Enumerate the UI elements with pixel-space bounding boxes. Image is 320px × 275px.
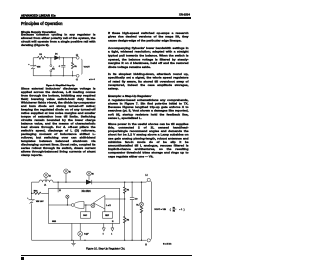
- left column subhead: [21, 30, 71, 34]
- svg-text:R1: R1: [127, 190, 129, 192]
- terminal plus: [76, 54, 79, 59]
- right column para 4: [108, 98, 189, 120]
- heading: [21, 21, 71, 26]
- wire bottom bus: [32, 239, 147, 241]
- page number block: [21, 257, 24, 260]
- wire top: [33, 57, 76, 59]
- capacitor CT pin: [78, 223, 89, 240]
- wire left vertical: [31, 182, 33, 240]
- svg-text:REF: REF: [105, 215, 110, 217]
- svg-text:11: 11: [112, 221, 114, 223]
- svg-text:CO: CO: [135, 199, 138, 201]
- svg-text:fS = 25 kHz: fS = 25 kHz: [163, 243, 172, 245]
- wire comp input: [105, 198, 125, 200]
- bottom caption 2: [86, 247, 146, 250]
- svg-text:0.1µF: 0.1µF: [84, 234, 88, 236]
- battery VIN: [27, 198, 44, 204]
- diode D2: [86, 180, 92, 184]
- svg-text:(-): (-): [76, 79, 78, 81]
- svg-text:14: 14: [49, 174, 51, 177]
- resistor R1: [38, 54, 46, 59]
- svg-text:16: 16: [92, 174, 94, 176]
- svg-text:XR-1524: XR-1524: [82, 190, 92, 193]
- svg-text:(+): (+): [76, 54, 79, 56]
- svg-text:VOUT: VOUT: [84, 66, 91, 68]
- svg-text:VOUT = VIN: VOUT = VIN: [154, 209, 166, 211]
- header rule: [20, 17, 191, 19]
- gate G1: [71, 202, 84, 209]
- terminal VOUT minus: [145, 239, 150, 246]
- left column para 1: [21, 33, 96, 47]
- lamp load ⊗ and resistor RL2: [136, 182, 143, 240]
- pin P2: [64, 169, 71, 182]
- svg-text:(: (: [170, 208, 171, 212]
- header part number: [179, 13, 194, 16]
- op-amp U2: [93, 195, 110, 211]
- switch S1: [50, 58, 55, 76]
- svg-text:GND: GND: [52, 221, 57, 223]
- svg-text:5: 5: [103, 234, 104, 236]
- wire block1 stub: [85, 205, 87, 212]
- resistor R1 divider: [124, 182, 130, 216]
- svg-text:R2: R2: [127, 219, 129, 221]
- junction dots bottom bus: [31, 181, 142, 240]
- node A junction dots: [47, 57, 73, 76]
- capacitor CO: [59, 58, 66, 76]
- formula fraction bar: [173, 208, 177, 210]
- pin P3: [87, 171, 94, 180]
- schematics svg overlay: [0, 0, 213, 275]
- wire left vertical: [32, 58, 34, 76]
- wire gate input: [49, 204, 72, 206]
- test point TP1: [102, 223, 105, 235]
- svg-text:12: 12: [59, 190, 61, 192]
- wire gnd stub: [71, 223, 73, 240]
- IC U1 box: [49, 188, 120, 223]
- resistor RSC: [32, 190, 49, 194]
- test point TP2: [111, 223, 114, 235]
- right column para 5: [108, 122, 189, 158]
- VOUT bracket: [81, 59, 94, 81]
- resistor R2 divider: [124, 216, 130, 240]
- right column para 2: [108, 46, 189, 69]
- lamp ⊗: [91, 204, 95, 208]
- pin P4 inside: [66, 195, 69, 205]
- block REF: [103, 212, 113, 218]
- wire output rail: [150, 181, 151, 240]
- header left text: [21, 14, 61, 17]
- svg-text:VIN: VIN: [37, 67, 41, 69]
- svg-text:RSC: RSC: [34, 190, 38, 192]
- right column subhead: [108, 94, 158, 98]
- formula VOUT: [154, 208, 184, 213]
- wire top bus: [32, 181, 147, 183]
- svg-text:+: +: [28, 64, 30, 66]
- right column para 3: [108, 72, 189, 90]
- diode D1: [55, 54, 60, 60]
- terminal VOUT plus: [145, 174, 150, 182]
- svg-text:1 of 2: 1 of 2: [106, 205, 110, 207]
- source VIN: [28, 64, 41, 69]
- svg-text:4: 4: [111, 233, 112, 236]
- svg-text:15: 15: [69, 172, 71, 174]
- svg-text:at t > 0: at t > 0: [89, 78, 95, 81]
- wire pin12: [58, 182, 61, 192]
- wire gate to lamp: [84, 204, 91, 206]
- svg-text:RL: RL: [136, 204, 139, 206]
- svg-text:R2: R2: [173, 211, 175, 213]
- svg-text:VIN 3.6V: VIN 3.6V: [36, 201, 44, 203]
- svg-text:(-): (-): [145, 244, 147, 246]
- svg-text:L1: L1: [44, 184, 46, 186]
- capacitor CO2: [130, 182, 138, 240]
- svg-text:OSC: OSC: [83, 215, 88, 217]
- svg-text:(+): (+): [145, 174, 148, 176]
- resistor RL: [71, 58, 77, 76]
- svg-text:+: +: [27, 198, 29, 200]
- svg-text:D1: D1: [55, 54, 58, 56]
- footer rule: [21, 255, 192, 256]
- right column para 1: [108, 31, 189, 42]
- svg-text:+ 1: + 1: [179, 209, 183, 211]
- svg-text:RL: RL: [74, 66, 77, 68]
- svg-text:C: C: [59, 66, 61, 68]
- svg-text:S1: S1: [52, 68, 54, 70]
- block OSC: [81, 212, 91, 218]
- pin P1: [44, 173, 51, 181]
- ground: [71, 240, 75, 246]
- svg-text:R1: R1: [39, 54, 42, 56]
- inductor L1: [39, 180, 53, 186]
- left column caption 1: [46, 84, 106, 87]
- terminal minus: [76, 74, 79, 81]
- svg-text:): ): [184, 208, 185, 212]
- left column para 2: [21, 87, 96, 157]
- wire bottom: [33, 75, 76, 77]
